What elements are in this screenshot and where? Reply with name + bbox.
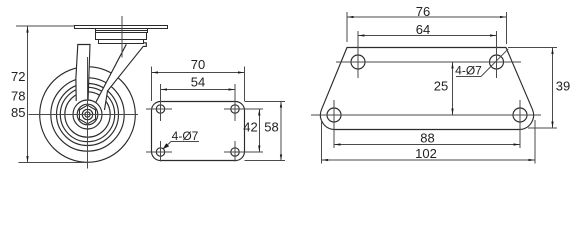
- hole bottom-right vertical centerline / 88 extension: [519, 100, 521, 148]
- 70 dim arrow right: [238, 71, 244, 73]
- svg-text:58: 58: [264, 120, 278, 135]
- hole trapezoid top-left: [351, 55, 365, 69]
- svg-text:78: 78: [11, 88, 25, 103]
- hole trapezoid bottom-left: [327, 108, 341, 122]
- 58 dimension extension top: [245, 101, 286, 103]
- 4-d7 underline and leader (middle): [164, 142, 200, 149]
- 4-d7 leader arrow (middle): [163, 143, 170, 149]
- svg-text:42: 42: [243, 120, 257, 135]
- svg-text:39: 39: [556, 79, 570, 94]
- hole top-right vertical centerline / 54 extension: [234, 84, 236, 121]
- 64 dimension line: [358, 35, 497, 37]
- wheel tire outer circle: [40, 67, 136, 163]
- fork back leg: [96, 43, 147, 110]
- wheel rim circle 1: [57, 84, 119, 146]
- trapezoid plate outline: [320, 48, 533, 130]
- wheel tire inner circle: [51, 78, 124, 151]
- 88 dim arrow left: [334, 143, 340, 145]
- hole top-right horizontal centerline / 42 extension: [224, 108, 263, 110]
- ground line: [19, 162, 90, 164]
- axle hex nut: [79, 105, 95, 124]
- wheel vertical centerline: [87, 57, 89, 169]
- 58 dim arrow up: [280, 101, 282, 107]
- wheel hub boss circle: [73, 100, 102, 129]
- wheel horizontal centerline: [29, 114, 139, 116]
- svg-text:64: 64: [416, 22, 430, 37]
- swivel raceway inner line: [96, 30, 148, 32]
- axle washer circle: [82, 109, 92, 119]
- hole top-left horizontal centerline: [146, 108, 172, 110]
- swivel housing: [96, 33, 147, 40]
- top mounting plate (side view): [75, 26, 168, 29]
- hole bottom-left: [156, 148, 164, 156]
- axle center circle: [85, 112, 90, 117]
- 102 dim arrow left: [322, 159, 328, 161]
- svg-text:102: 102: [415, 146, 437, 161]
- svg-text:72: 72: [11, 69, 25, 84]
- 102 dimension line: [322, 159, 535, 161]
- svg-text:85: 85: [11, 105, 25, 120]
- bottom holes horizontal centerline: [311, 114, 541, 116]
- 76 dim arrow right: [500, 16, 506, 18]
- 76 dimension extension right: [506, 12, 508, 44]
- 88 dim arrow right: [514, 143, 520, 145]
- svg-text:54: 54: [191, 75, 205, 90]
- wheel rim circle 2: [60, 87, 114, 141]
- 39 dimension line: [552, 48, 554, 129]
- 39 dim arrow up: [551, 48, 553, 54]
- 76 dim arrow left: [347, 16, 353, 18]
- svg-text:88: 88: [420, 131, 434, 146]
- hole top-left: [156, 105, 164, 113]
- wheel hub small ring: [77, 104, 98, 125]
- 76 dimension extension left: [346, 12, 348, 42]
- hole top-right: [231, 105, 239, 113]
- 102 dimension extension left: [321, 120, 323, 164]
- 54 dim arrow left: [161, 88, 167, 90]
- 42 dim arrow up: [258, 109, 260, 115]
- 76 dimension line: [347, 16, 507, 18]
- 25 dim arrow up: [451, 62, 453, 68]
- height dim arrow down: [26, 156, 28, 162]
- rectangular plate outline: [152, 102, 245, 161]
- 39 dim arrow down: [551, 122, 553, 128]
- hole top-right vertical centerline / 64 extension: [496, 31, 498, 78]
- hole top-left vertical centerline / 54 extension: [160, 84, 162, 121]
- hole bottom-right horizontal centerline / 42 extension: [224, 151, 263, 153]
- 58 dimension extension bottom: [245, 160, 286, 162]
- 39 dimension extension bottom: [528, 127, 557, 129]
- 64 dim arrow left: [358, 34, 364, 36]
- 58 dim arrow down: [280, 155, 282, 161]
- hole trapezoid top-right: [490, 55, 504, 69]
- 58 dimension line: [280, 102, 282, 161]
- hole bottom-left vertical centerline / 88 extension: [333, 100, 335, 148]
- top extension line: [16, 25, 74, 27]
- swivel axis centerline: [121, 16, 123, 58]
- svg-text:76: 76: [416, 4, 430, 19]
- hole bottom-left horizontal centerline: [146, 151, 172, 153]
- 102 dim arrow right: [529, 159, 535, 161]
- fork back leg edges: [96, 43, 147, 110]
- 25 dim arrow down: [451, 109, 453, 115]
- hole bottom-left vertical centerline: [160, 141, 162, 162]
- height dim arrow up: [26, 26, 28, 32]
- 70 dimension extension left: [151, 67, 153, 102]
- 88 dimension line: [334, 144, 520, 146]
- svg-text:4-Ø7: 4-Ø7: [455, 64, 482, 78]
- hole bottom-right: [231, 148, 239, 156]
- top holes horizontal centerline: [336, 61, 521, 63]
- 70 dim arrow left: [152, 71, 158, 73]
- hole bottom-right vertical centerline: [234, 141, 236, 162]
- fork front leg: [76, 45, 90, 102]
- 42 dimension line: [258, 109, 260, 152]
- 4-d7 underline and leader (right): [456, 49, 508, 77]
- 39 dimension extension top: [508, 47, 557, 49]
- 25 dimension line: [452, 62, 454, 115]
- 54 dim arrow right: [229, 88, 235, 90]
- svg-text:25: 25: [434, 79, 448, 94]
- fork front leg edges: [76, 45, 90, 102]
- 42 dim arrow down: [258, 146, 260, 152]
- 102 dimension extension right: [534, 120, 536, 164]
- hole top-left vertical centerline / 64 extension: [357, 31, 359, 78]
- svg-text:4-Ø7: 4-Ø7: [172, 129, 199, 143]
- swivel raceway: [96, 29, 148, 33]
- svg-text:70: 70: [191, 57, 205, 72]
- wheel rim circle 3: [65, 92, 110, 137]
- 70 dimension extension right: [244, 67, 246, 102]
- 70 dimension line: [152, 72, 245, 74]
- 64 dim arrow right: [490, 34, 496, 36]
- hole trapezoid bottom-right: [513, 108, 527, 122]
- swivel step plate: [99, 40, 144, 44]
- height dimension line: [27, 27, 29, 163]
- 54 dimension line: [161, 89, 236, 91]
